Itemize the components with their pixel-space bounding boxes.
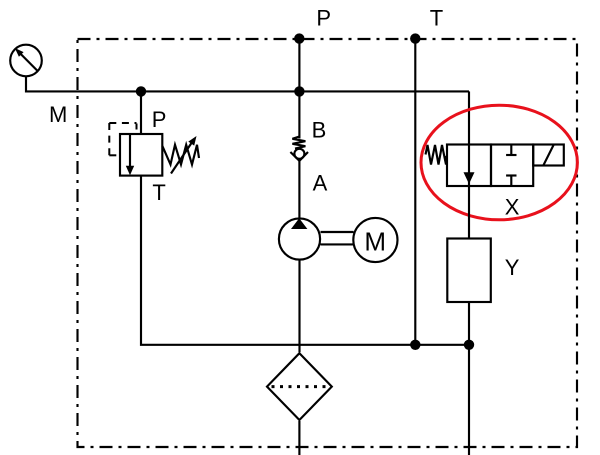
- junction on M line at P line: [294, 86, 304, 96]
- filter: [267, 353, 332, 420]
- wire pump to filter: [298, 260, 300, 352]
- junction bottom T: [410, 340, 420, 350]
- junction T on top border: [410, 33, 420, 43]
- wire relief valve upper: [140, 91, 142, 134]
- component Y box: [447, 239, 491, 303]
- wire P line top segment: [298, 39, 300, 139]
- wire filter to tank: [298, 421, 300, 455]
- wire A segment: [298, 161, 300, 219]
- solenoid valve left box (arrow position): [447, 145, 491, 187]
- check valve spring: [292, 137, 305, 149]
- red highlight ellipse: [421, 105, 577, 220]
- svg-text:M: M: [364, 226, 386, 256]
- electric motor: [353, 218, 397, 262]
- solenoid valve spring: [426, 145, 447, 165]
- svg-text:P: P: [152, 107, 167, 132]
- solenoid valve right box (closed position): [491, 145, 533, 187]
- solenoid coil: [533, 145, 564, 166]
- solenoid valve internal arrow: [468, 145, 470, 187]
- svg-text:Y: Y: [505, 255, 520, 280]
- svg-text:T: T: [152, 180, 165, 205]
- wire X branch vertical: [468, 91, 470, 144]
- check valve seat: [290, 152, 308, 161]
- relief valve spring: [162, 145, 199, 165]
- enclosure dash-dot border: [78, 39, 578, 447]
- wire valve to Y: [468, 186, 470, 239]
- svg-text:B: B: [312, 118, 327, 143]
- svg-text:P: P: [316, 6, 331, 31]
- wire gauge stem: [26, 76, 469, 91]
- wire relief valve lower: [141, 176, 469, 345]
- check valve ball: [294, 149, 304, 159]
- pressure gauge M: [10, 45, 42, 77]
- wire T line: [414, 39, 416, 345]
- motor coupling shaft: [321, 231, 354, 233]
- junction on M line at relief valve: [136, 86, 146, 96]
- relief valve internal arrow: [129, 134, 131, 168]
- wire Y to tank: [468, 302, 470, 455]
- pump: [279, 218, 320, 259]
- relief valve pilot dashed box: [109, 122, 136, 124]
- svg-text:A: A: [313, 170, 328, 195]
- svg-text:M: M: [49, 102, 67, 127]
- svg-text:T: T: [430, 6, 443, 31]
- relief valve adjust arrow: [171, 142, 193, 174]
- relief valve body: [120, 134, 162, 176]
- svg-text:X: X: [505, 194, 520, 219]
- junction bottom Y: [464, 340, 474, 350]
- junction P on top border: [294, 33, 304, 43]
